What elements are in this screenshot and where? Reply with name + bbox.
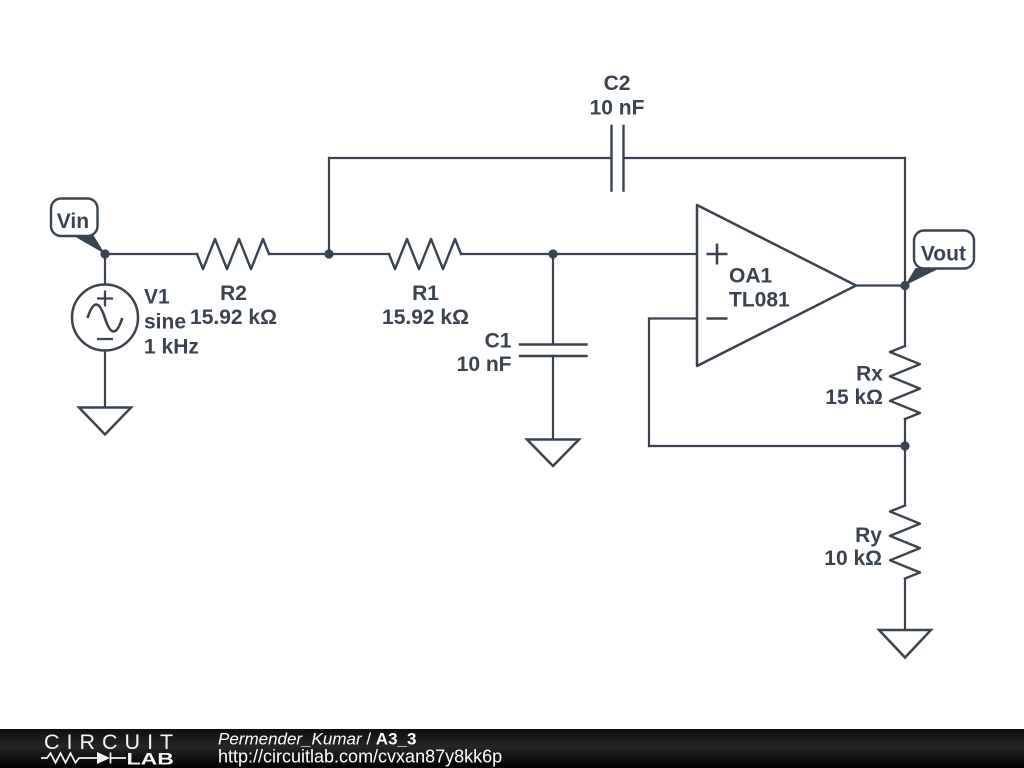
label V1 value xyxy=(144,286,199,359)
wire node A up to top rail xyxy=(328,158,330,254)
ground below V1 xyxy=(79,408,131,435)
label R2 value xyxy=(190,282,277,329)
capacitor C2 plates xyxy=(612,126,624,191)
svg-text:10 nF: 10 nF xyxy=(457,353,512,376)
svg-text:V1: V1 xyxy=(144,286,170,309)
wire R2 to R1 through node xyxy=(269,253,389,255)
svg-text:OA1: OA1 xyxy=(729,265,773,288)
label C1 value xyxy=(457,330,512,377)
svg-text:10 nF: 10 nF xyxy=(590,97,645,120)
label C2 value xyxy=(590,72,645,120)
wire C1 bottom plate to ground xyxy=(552,356,554,440)
label Rx value xyxy=(825,363,883,410)
label OA1 value xyxy=(729,265,790,312)
flag Vin xyxy=(51,199,105,255)
svg-text:R2: R2 xyxy=(220,282,247,305)
logo diode arrow xyxy=(97,752,110,764)
label Ry value xyxy=(824,524,882,570)
wire Vin node to V1 xyxy=(104,254,106,285)
node A junction xyxy=(324,249,333,258)
label R1 value xyxy=(382,282,469,329)
svg-text:R1: R1 xyxy=(412,282,439,305)
logo resistor-diode squiggle xyxy=(41,753,126,764)
voltage source V1 xyxy=(72,285,138,351)
flag Vout xyxy=(905,231,974,286)
node Vin junction xyxy=(100,249,109,258)
svg-text:Vout: Vout xyxy=(921,242,966,265)
wire feedback vertical xyxy=(648,319,650,447)
ground below C1 xyxy=(527,440,579,467)
resistor Rx xyxy=(890,346,920,419)
svg-text:15.92 kΩ: 15.92 kΩ xyxy=(382,306,469,329)
wire Rx to Ry through node xyxy=(904,419,906,506)
node B junction xyxy=(548,249,557,258)
wire feedback to inverting input xyxy=(649,317,697,319)
svg-text:LAB: LAB xyxy=(127,751,174,768)
svg-text:Vin: Vin xyxy=(57,210,89,233)
footer bar xyxy=(0,729,1024,768)
node Vout junction xyxy=(900,281,909,290)
svg-text:1 kHz: 1 kHz xyxy=(144,336,199,359)
svg-text:sine: sine xyxy=(144,311,186,334)
capacitor C1 plates xyxy=(520,345,587,357)
svg-text:TL081: TL081 xyxy=(729,289,790,312)
svg-text:Ry: Ry xyxy=(855,524,882,547)
wire R1 to op-amp noninverting input xyxy=(461,253,697,255)
wire op-amp output to node xyxy=(856,284,905,286)
ground below Ry xyxy=(879,630,931,658)
resistor Ry xyxy=(890,506,920,579)
wire top rail to C2 left plate xyxy=(329,157,612,159)
wire V1 to ground xyxy=(104,351,106,408)
svg-text:http://circuitlab.com/cvxan87y: http://circuitlab.com/cvxan87y8kk6p xyxy=(218,747,502,767)
resistor R1 xyxy=(389,239,461,269)
wire node to C1 top plate xyxy=(552,254,554,345)
node feedback junction xyxy=(900,441,909,450)
svg-text:C1: C1 xyxy=(485,330,512,353)
wire Vin node to R2 xyxy=(105,253,197,255)
resistor R2 xyxy=(197,239,269,269)
wire right rail down to output node xyxy=(904,158,906,286)
wire output node down to Rx xyxy=(904,286,906,347)
wire C2 right plate to right rail xyxy=(624,157,906,159)
wire feedback node to left xyxy=(649,445,905,447)
svg-text:C2: C2 xyxy=(604,72,631,95)
op-amp OA1 xyxy=(697,205,856,366)
wire Ry to ground xyxy=(904,579,906,631)
svg-text:10 kΩ: 10 kΩ xyxy=(824,547,882,570)
svg-text:15.92 kΩ: 15.92 kΩ xyxy=(190,306,277,329)
svg-text:Rx: Rx xyxy=(856,363,883,386)
svg-text:15 kΩ: 15 kΩ xyxy=(825,386,883,409)
